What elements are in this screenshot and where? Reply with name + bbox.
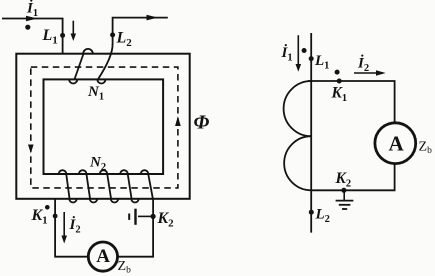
svg-text:A: A — [96, 246, 110, 267]
winding N1 bottom loop 1 — [69, 79, 77, 83]
node K1 dot on wire — [53, 214, 58, 219]
node L1 dot on wire — [60, 33, 65, 38]
earth symbol at K2 (sideways) — [138, 215, 153, 217]
node L2 dot — [309, 210, 314, 215]
node K2 dot — [341, 188, 346, 193]
polarity dot L1 — [25, 25, 30, 30]
ammeter A right — [375, 123, 416, 164]
arrow down beside L1 wire — [72, 21, 74, 35]
svg-text:K2: K2 — [157, 210, 175, 230]
node L1 dot — [309, 56, 314, 61]
wire bottom rail ammeter to K2 — [311, 164, 394, 190]
node L2 dot on wire — [110, 32, 115, 37]
svg-text:Zb: Zb — [419, 140, 433, 157]
arrowhead out direction — [147, 15, 159, 21]
flux path dashed rectangle — [31, 67, 178, 188]
arrow down I2 — [63, 212, 65, 236]
winding N1 front diagonal right joining L2 wire — [98, 44, 113, 79]
core inner window rectangle — [44, 79, 164, 174]
flux arrow up on right dashed side — [175, 116, 181, 126]
winding N2 bottom loops — [69, 199, 76, 203]
ground symbol at K2 — [343, 190, 345, 200]
secondary winding bump 2 — [284, 136, 311, 190]
arrow down I1 — [297, 35, 299, 65]
winding N1 top bump — [83, 49, 93, 54]
arrowhead I1 direction — [26, 16, 38, 22]
ammeter A left — [88, 242, 117, 271]
svg-text:N1: N1 — [87, 84, 104, 103]
winding N2 front diagonals — [66, 174, 69, 198]
flux arrow down on left dashed side — [28, 145, 34, 154]
svg-text:İ2: İ2 — [357, 55, 369, 75]
node K1 dot — [337, 79, 342, 84]
svg-text:İ1: İ1 — [26, 0, 38, 19]
svg-text:K1: K1 — [331, 85, 348, 105]
winding N1 bottom loop 2 — [97, 79, 105, 83]
svg-text:L1: L1 — [42, 27, 58, 47]
wire secondary loop K1-ammeter-K2 — [55, 199, 153, 257]
wire primary feed top-left — [2, 19, 63, 54]
svg-text:Zb: Zb — [118, 259, 132, 276]
polarity dot K1 — [335, 70, 340, 75]
svg-text:L2: L2 — [315, 207, 330, 226]
svg-text:İ2: İ2 — [69, 216, 81, 236]
winding N1 front diagonal left — [75, 54, 84, 79]
wire primary straight conductor — [310, 33, 312, 233]
svg-text:L2: L2 — [116, 30, 133, 50]
polarity dot K1 — [45, 205, 50, 210]
core outer rectangle — [16, 54, 189, 199]
svg-text:L1: L1 — [314, 53, 329, 72]
svg-text:Φ: Φ — [194, 112, 210, 134]
wire top rail K1 to ammeter — [308, 81, 395, 123]
svg-text:İ1: İ1 — [281, 44, 293, 64]
secondary winding bump 1 — [284, 81, 312, 136]
svg-text:K1: K1 — [31, 207, 48, 227]
wire secondary-side feed top (L2 to right arrow) — [113, 18, 168, 45]
arrow right I2 — [354, 72, 377, 74]
winding N2 last diagonal to K2 wire — [148, 174, 153, 198]
polarity dot primary — [302, 48, 307, 53]
winding N2 top bumps — [59, 170, 67, 174]
node K2 dot — [151, 214, 156, 219]
svg-text:A: A — [389, 132, 405, 156]
svg-text:K2: K2 — [335, 170, 352, 190]
